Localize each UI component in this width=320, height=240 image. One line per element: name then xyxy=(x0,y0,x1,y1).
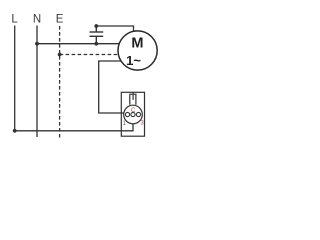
svg-text:L: L xyxy=(11,14,18,26)
svg-text:M: M xyxy=(131,35,143,51)
wire N to motor xyxy=(37,43,119,45)
connector face circle xyxy=(124,105,143,124)
svg-text:3: 3 xyxy=(140,121,144,127)
wire E to motor (dashed) xyxy=(60,54,119,56)
connector pin 3 xyxy=(136,112,140,116)
svg-text:C: C xyxy=(131,108,136,114)
wire L to connector centre pin xyxy=(15,124,133,131)
node E junction dot xyxy=(58,53,62,57)
svg-text:1: 1 xyxy=(123,121,127,127)
connector cable entry prongs xyxy=(130,92,136,105)
capacitor C top node dot xyxy=(94,24,98,28)
wire N vertical xyxy=(36,26,38,138)
svg-text:N: N xyxy=(33,14,41,26)
motor U1 circle xyxy=(118,31,157,70)
connector plug outline xyxy=(121,92,144,136)
wire capacitor top to motor top xyxy=(96,26,133,31)
node L junction dot xyxy=(13,129,17,133)
capacitor C xyxy=(90,26,104,44)
wire E vertical (dashed) xyxy=(59,26,61,138)
svg-text:E: E xyxy=(56,14,64,26)
wire L vertical xyxy=(14,26,16,131)
node N junction dot xyxy=(35,42,39,46)
connector pin C (centre) xyxy=(131,112,135,116)
capacitor bottom node dot xyxy=(94,42,98,46)
svg-text:1~: 1~ xyxy=(126,53,141,68)
wire motor to connector pin 1 xyxy=(99,61,124,113)
connector pin 1 xyxy=(125,112,129,116)
